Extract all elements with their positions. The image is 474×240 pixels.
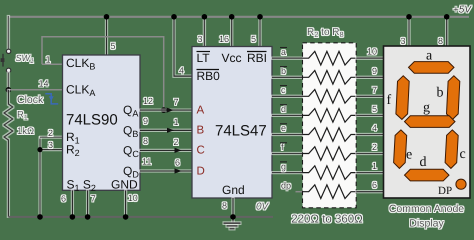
node rail anode3 bbox=[406, 14, 412, 20]
svg-text:DP: DP bbox=[438, 185, 452, 197]
wire switch to clock junction bbox=[7, 73, 9, 90]
svg-text:9: 9 bbox=[372, 66, 377, 76]
node rail RBI bbox=[257, 14, 263, 20]
svg-text:b: b bbox=[437, 86, 444, 101]
node R2 junction bbox=[37, 147, 42, 152]
svg-text:3: 3 bbox=[400, 36, 405, 46]
svg-text:10: 10 bbox=[367, 47, 377, 57]
svg-text:1: 1 bbox=[173, 117, 178, 127]
wire R1R2 tee vertical bbox=[39, 137, 41, 217]
svg-text:10: 10 bbox=[128, 193, 138, 203]
svg-text:RBI: RBI bbox=[247, 51, 267, 65]
node rail R junction bbox=[37, 214, 43, 220]
wire R1 stub bbox=[40, 136, 63, 138]
svg-text:11: 11 bbox=[142, 157, 151, 167]
wire segment row b right bbox=[356, 76, 383, 78]
svg-text:1: 1 bbox=[45, 55, 50, 65]
label c-bar bbox=[280, 85, 287, 95]
svg-text:a: a bbox=[281, 47, 286, 57]
wire RBO pin4 bbox=[174, 16, 192, 76]
node rail Vcc bbox=[229, 14, 235, 20]
wire QD to D bbox=[140, 170, 192, 172]
svg-text:3: 3 bbox=[197, 34, 202, 44]
node rail RBO bbox=[171, 14, 177, 20]
wire R2 stub bbox=[40, 149, 63, 151]
svg-text:0V: 0V bbox=[256, 202, 270, 213]
svg-text:9: 9 bbox=[143, 116, 148, 126]
svg-text:5: 5 bbox=[251, 34, 256, 44]
wire Vcc pin16 bbox=[231, 16, 233, 46]
svg-text:e: e bbox=[281, 123, 286, 133]
node rail LT bbox=[202, 14, 208, 20]
svg-text:RB0: RB0 bbox=[197, 69, 221, 83]
svg-text:d: d bbox=[281, 104, 286, 114]
svg-text:a: a bbox=[426, 49, 433, 64]
wire RBI pin5 bbox=[259, 16, 261, 46]
svg-text:LT: LT bbox=[197, 51, 211, 65]
resistor R4 bbox=[303, 90, 357, 104]
node rail pin5 bbox=[104, 14, 110, 20]
resistor array box R2-R8 bbox=[303, 43, 357, 208]
node QA feedback junction bbox=[161, 107, 167, 113]
arrow QB bbox=[167, 128, 174, 133]
wire segment row g right bbox=[356, 172, 383, 174]
svg-text:3: 3 bbox=[48, 140, 53, 150]
svg-text:6: 6 bbox=[372, 180, 377, 190]
svg-text:g: g bbox=[281, 161, 286, 171]
wire QC to C bbox=[140, 149, 192, 151]
svg-text:Gnd: Gnd bbox=[222, 183, 245, 197]
resistor R8 bbox=[303, 166, 357, 180]
wire CLKB stub bbox=[42, 63, 63, 65]
svg-text:6: 6 bbox=[175, 158, 180, 168]
arrow QD bbox=[175, 168, 182, 173]
wire segment row dp left bbox=[296, 191, 303, 193]
resistor R7 bbox=[303, 147, 357, 161]
segment b bbox=[447, 76, 460, 120]
decimal point DP bbox=[456, 179, 466, 189]
display DS1 body bbox=[384, 46, 471, 198]
svg-text:b: b bbox=[281, 66, 286, 76]
wire segment row c right bbox=[356, 95, 383, 97]
wire anode pin3 bbox=[408, 16, 410, 46]
label RBI bbox=[247, 51, 267, 65]
IC U2 74LS47 box bbox=[192, 47, 272, 199]
svg-text:14: 14 bbox=[38, 79, 48, 89]
svg-text:D: D bbox=[197, 165, 205, 177]
svg-text:Common Anode: Common Anode bbox=[389, 203, 464, 215]
svg-text:12: 12 bbox=[143, 96, 153, 106]
svg-text:R2 to R8: R2 to R8 bbox=[307, 27, 344, 39]
svg-text:2: 2 bbox=[372, 142, 377, 152]
resistor R6 bbox=[303, 128, 357, 142]
svg-text:f: f bbox=[387, 93, 392, 108]
svg-text:c: c bbox=[460, 147, 466, 162]
svg-text:e: e bbox=[406, 148, 412, 163]
resistor R3 bbox=[303, 71, 357, 85]
svg-text:dp: dp bbox=[281, 180, 291, 190]
node GND90 rail bbox=[123, 214, 129, 220]
wire left drop from rail to switch bbox=[7, 16, 9, 49]
resistor R5 bbox=[303, 109, 357, 123]
svg-text:7: 7 bbox=[91, 194, 96, 204]
svg-text:Display: Display bbox=[409, 218, 444, 230]
wire segment row f left bbox=[272, 153, 303, 155]
clock waveform symbol bbox=[45, 94, 58, 104]
wire segment row a left bbox=[272, 57, 303, 59]
svg-text:A: A bbox=[197, 104, 205, 116]
svg-text:1: 1 bbox=[372, 161, 377, 171]
wire +5V top rail bbox=[8, 16, 469, 18]
svg-text:g: g bbox=[423, 101, 430, 116]
svg-text:4: 4 bbox=[372, 123, 377, 133]
node S2 rail bbox=[85, 214, 91, 220]
node clock junction bbox=[6, 87, 12, 93]
svg-text:2: 2 bbox=[173, 137, 178, 147]
wire QB to B bbox=[140, 129, 192, 131]
label b-bar bbox=[280, 66, 287, 76]
segment f bbox=[396, 76, 409, 120]
switch SW1 bbox=[1, 49, 11, 72]
wire segment row e right bbox=[356, 134, 383, 136]
node Gnd47 rail bbox=[230, 214, 236, 220]
wire segment row d right bbox=[356, 114, 383, 116]
wire LT pin3 bbox=[203, 16, 205, 46]
wire segment row a right bbox=[356, 57, 383, 59]
svg-text:B: B bbox=[197, 125, 205, 137]
svg-text:Clock: Clock bbox=[17, 94, 44, 106]
svg-text:+5V: +5V bbox=[453, 5, 472, 16]
resistor R1 bbox=[4, 90, 13, 217]
wire GND90 to ground bbox=[125, 190, 127, 217]
svg-text:5: 5 bbox=[110, 41, 115, 51]
label LT bbox=[197, 51, 211, 65]
svg-text:C: C bbox=[197, 145, 205, 157]
arrow QC bbox=[175, 148, 182, 153]
wire segment row f right bbox=[356, 153, 383, 155]
resistor Rdp bbox=[303, 185, 357, 199]
wire segment row dp right bbox=[356, 191, 383, 193]
wire segment row g left bbox=[272, 172, 303, 174]
svg-text:d: d bbox=[420, 155, 427, 170]
label RB0 bbox=[197, 69, 221, 83]
wire S1 to ground bbox=[71, 190, 73, 217]
label d-bar bbox=[280, 104, 287, 114]
wire 74LS90 pin5 Vcc bbox=[106, 16, 108, 55]
segment e bbox=[394, 130, 407, 169]
svg-text:6: 6 bbox=[61, 194, 66, 204]
svg-text:4: 4 bbox=[179, 66, 184, 76]
label e-bar bbox=[280, 123, 287, 133]
svg-text:5: 5 bbox=[372, 104, 377, 114]
wire segment row e left bbox=[272, 134, 303, 136]
wire QA to CLKB feedback bbox=[42, 37, 164, 110]
wire bottom ground rail bbox=[8, 216, 273, 218]
wire S2 to ground bbox=[87, 190, 89, 217]
svg-text:16: 16 bbox=[219, 34, 229, 44]
resistor R2 bbox=[303, 51, 357, 65]
svg-text:74LS47: 74LS47 bbox=[215, 123, 267, 140]
segment c bbox=[445, 130, 458, 169]
svg-text:8: 8 bbox=[222, 201, 227, 211]
svg-text:74LS90: 74LS90 bbox=[66, 112, 118, 129]
wire Gnd47 to ground bbox=[232, 198, 234, 223]
segment d bbox=[405, 169, 450, 181]
svg-text:c: c bbox=[281, 85, 286, 95]
svg-text:220Ω to 360Ω: 220Ω to 360Ω bbox=[291, 214, 363, 226]
ground bbox=[224, 223, 241, 229]
svg-text:8: 8 bbox=[438, 36, 443, 46]
label a-bar bbox=[280, 47, 287, 57]
svg-text:8: 8 bbox=[143, 136, 148, 146]
wire QA to A bbox=[140, 109, 192, 111]
node rail anode8 bbox=[444, 14, 450, 20]
svg-text:GND: GND bbox=[111, 178, 138, 192]
label f-bar bbox=[280, 142, 287, 152]
label g-bar bbox=[280, 161, 287, 171]
svg-text:1kΩ: 1kΩ bbox=[17, 126, 34, 137]
wire segment row c left bbox=[272, 95, 303, 97]
wire segment row d left bbox=[272, 114, 303, 116]
svg-text:7: 7 bbox=[372, 85, 377, 95]
svg-text:7: 7 bbox=[173, 97, 178, 107]
arrow QA bbox=[167, 108, 174, 113]
segment a bbox=[409, 62, 455, 74]
wire segment row b left bbox=[272, 76, 303, 78]
svg-text:2: 2 bbox=[48, 128, 53, 138]
segment g bbox=[405, 116, 456, 128]
wire anode pin8 bbox=[446, 16, 448, 46]
node S1 rail bbox=[70, 214, 76, 220]
svg-text:Vcc: Vcc bbox=[222, 51, 242, 65]
wire clock to CLKA bbox=[8, 89, 62, 91]
IC U1 74LS90 box bbox=[63, 55, 141, 190]
